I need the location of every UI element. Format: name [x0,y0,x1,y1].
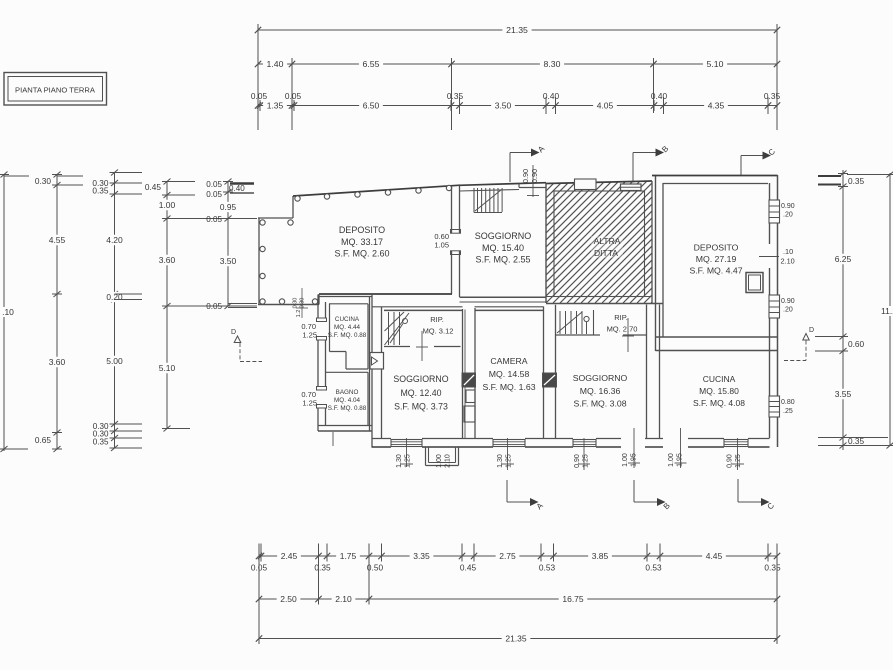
svg-text:DEPOSITO: DEPOSITO [694,243,739,253]
svg-text:0.53: 0.53 [539,563,556,573]
svg-text:2.10: 2.10 [445,454,452,468]
svg-text:.25: .25 [783,408,793,415]
section marker B bottom [634,480,672,511]
svg-text:4.20: 4.20 [106,235,123,245]
svg-text:0.90: 0.90 [521,169,530,183]
stairs RIP 3.12 [385,312,410,345]
svg-text:3.35: 3.35 [413,551,430,561]
fixture boxes camera left wall [464,390,475,422]
wall block bottom [318,426,372,432]
svg-text:0.35: 0.35 [93,438,109,447]
svg-text:CUCINA: CUCINA [703,374,736,384]
wall divider deposito-27 cucina [656,337,779,351]
wall deposito-33 right with door 0.60 [451,185,461,297]
hatched area ALTRA DITTA [406,160,808,303]
room label DEPOSITO 27.19 [689,243,742,276]
svg-text:0.35: 0.35 [314,563,331,573]
title box PIANTA PIANO TERRA [4,73,107,106]
room label CAMERA 14.58 [482,356,535,392]
door right wall 2.10 [759,247,795,266]
wall camera soggiorno-16.36 divider [544,305,556,439]
window right wall upper 0.90 [769,200,795,223]
svg-text:2.45: 2.45 [281,551,298,561]
right chain total 11.10 [881,172,893,449]
stairs soggiorno-15.40 [474,188,502,213]
svg-text:MQ. 4.04: MQ. 4.04 [334,397,360,404]
left chain 5 0.05 0.05 0.95 0.05 3.50 0.05 [206,179,245,312]
svg-text:3.60: 3.60 [49,357,66,367]
room label CUCINA 15.80 [693,374,745,408]
window opening ALTRA DITTA top left [575,179,597,190]
svg-text:21.35: 21.35 [506,25,528,35]
wall slanted top deposito [293,185,460,218]
door labels 0.60 1.05 deposito-33 [434,232,449,250]
svg-text:0.35: 0.35 [848,176,865,186]
columns circles slanted wall [295,185,452,201]
dimension row top total 21.35 [255,25,780,36]
left chain 2 0.30 4.55 3.60 0.65 [35,172,83,453]
svg-text:ALTRA: ALTRA [594,236,621,246]
svg-text:S.F. MQ. 4.47: S.F. MQ. 4.47 [689,266,742,276]
wall camera left [463,308,476,439]
room label ALTRA DITTA [591,236,623,258]
svg-text:5.10: 5.10 [707,59,724,69]
svg-text:SOGGIORNO: SOGGIORNO [393,374,448,384]
door dark box soggiorno-16.36 left [543,373,557,387]
wall deposito-27 top [652,176,778,184]
section marker A bottom [507,480,545,511]
svg-text:D: D [231,329,236,336]
svg-text:1.00: 1.00 [668,453,675,467]
svg-text:1.25: 1.25 [506,454,513,468]
room label RIP 3.12 [423,315,454,336]
svg-text:0.90: 0.90 [574,454,581,468]
svg-text:.20: .20 [783,307,793,314]
room label RIP 2.70 [607,313,638,334]
svg-text:5.10: 5.10 [159,363,176,373]
svg-text:0.05: 0.05 [206,190,222,199]
svg-text:1.25: 1.25 [302,331,317,340]
section marker D left [231,329,262,362]
svg-text:6.50: 6.50 [363,101,380,111]
window right wall middle 0.90 [769,295,795,318]
svg-text:RIP.: RIP. [614,313,628,322]
svg-text:2.10: 2.10 [335,594,352,604]
right chain 0.35 6.25 0.60 3.55 0.35 [815,170,888,450]
svg-text:1.30: 1.30 [497,454,504,468]
svg-text:MQ. 2.70: MQ. 2.70 [607,325,638,334]
svg-text:1.00: 1.00 [436,454,443,468]
wall right outer [770,175,778,447]
wall deposito-33 bottom [319,294,452,305]
threshold door soggiorno-12.40 [391,438,422,468]
svg-text:CUCINA: CUCINA [335,316,360,323]
left chain 4 0.45 1.00 3.60 5.10 [145,179,257,432]
dimension row bottom 2.50 2.10 16.75 [256,594,780,605]
svg-text:4.55: 4.55 [49,235,66,245]
svg-text:RIP.: RIP. [430,315,444,324]
svg-text:1.75: 1.75 [340,551,357,561]
left chain 3 0.30 0.35 4.20 0.20 5.00 0.30 0.30 0.35 [92,170,142,452]
svg-text:1.05: 1.05 [434,241,449,250]
svg-text:1.25: 1.25 [302,399,317,408]
small tick under bagno block [332,432,334,446]
svg-text:4.05: 4.05 [597,101,614,111]
dimension row bottom total 21.35 [256,633,780,644]
svg-text:1.95: 1.95 [677,453,684,467]
window ALTRA DITTA top right [621,184,642,191]
svg-text:2.75: 2.75 [499,551,516,561]
threshold door camera [493,438,525,470]
door soggiorno-12.40 from hall [370,353,384,370]
svg-text:0.40: 0.40 [229,184,245,193]
svg-text:5.00: 5.00 [106,356,123,366]
svg-text:0.60: 0.60 [848,339,865,349]
threshold door cucina 0.90 [724,438,748,470]
svg-text:0.05: 0.05 [285,91,302,101]
svg-text:2.10: 2.10 [781,257,795,266]
svg-text:S.F. MQ. 2.60: S.F. MQ. 2.60 [334,249,389,259]
svg-text:DITTA: DITTA [594,248,618,258]
svg-text:4.45: 4.45 [706,551,723,561]
svg-text:MQ. 12.40: MQ. 12.40 [400,388,441,398]
room label SOGGIORNO 15.40 [475,231,532,265]
svg-text:MQ. 16.36: MQ. 16.36 [580,386,621,396]
svg-text:0.65: 0.65 [35,435,52,445]
svg-text:CAMERA: CAMERA [490,356,527,366]
svg-text:1.00: 1.00 [622,453,629,467]
svg-text:BAGNO: BAGNO [336,389,359,396]
svg-text:0.90: 0.90 [727,454,734,468]
svg-text:0.05: 0.05 [206,215,222,224]
door left wall lower 0.70 [301,387,326,409]
svg-text:S.F. MQ. 0.88: S.F. MQ. 0.88 [328,405,367,412]
svg-text:MQ. 3.12: MQ. 3.12 [423,327,454,336]
walls RIP 3.12 [372,307,463,361]
svg-text:0.35: 0.35 [92,186,109,196]
svg-text:D: D [809,327,814,334]
svg-text:MQ. 33.17: MQ. 33.17 [341,237,383,247]
walls ALTRA DITTA border [546,181,663,304]
wall bottom main [372,439,770,448]
door left wall upper 0.70 [301,318,326,340]
svg-text:0.30: 0.30 [293,298,299,309]
door dark box camera left [462,373,476,387]
svg-text:0.95: 0.95 [220,202,237,212]
svg-text:0.05: 0.05 [251,91,268,101]
svg-text:0.35: 0.35 [764,91,781,101]
svg-text:2.50: 2.50 [280,594,297,604]
svg-text:3.50: 3.50 [495,101,512,111]
svg-text:0.35: 0.35 [764,563,781,573]
svg-text:MQ. 27.19: MQ. 27.19 [696,254,737,264]
threshold door soggiorno-16.36 [573,438,596,470]
svg-text:6.25: 6.25 [835,254,852,264]
svg-text:0.30: 0.30 [35,176,52,186]
svg-text:0.45: 0.45 [460,563,477,573]
svg-text:PIANTA PIANO TERRA: PIANTA PIANO TERRA [15,86,96,95]
dimension row bottom detailed 2.45 1.75 3.35 2.75 3.85 4.45 [251,544,781,573]
svg-text:0.40: 0.40 [543,91,560,101]
svg-text:1.30: 1.30 [396,454,403,468]
room label SOGGIORNO 16.36 [573,373,628,409]
svg-text:SOGGIORNO: SOGGIORNO [475,231,532,241]
svg-text:.10: .10 [783,247,793,256]
svg-text:0.80: 0.80 [781,399,795,406]
svg-text:MQ. 15.80: MQ. 15.80 [699,386,739,396]
room walls CUCINA 4.44 [329,304,368,369]
svg-text:0.90: 0.90 [530,169,539,183]
svg-text:0.05: 0.05 [206,180,222,189]
svg-text:S.F. MQ. 3.08: S.F. MQ. 3.08 [573,399,626,409]
door opening cucina right 1.00 [668,428,687,468]
svg-text:S.F. MQ. 4.08: S.F. MQ. 4.08 [693,398,745,408]
svg-text:0.53: 0.53 [645,563,662,573]
walls soggiorno-12.40 block sides [370,294,382,447]
svg-text:DEPOSITO: DEPOSITO [339,225,385,235]
room label DEPOSITO 33.17 [334,225,389,259]
stairs RIP 2.70 [557,311,589,334]
svg-text:0.90: 0.90 [781,298,795,305]
svg-text:MQ. 4.44: MQ. 4.44 [334,324,360,331]
small dim cluster left wing bottom [293,288,309,318]
svg-text:3.85: 3.85 [592,551,609,561]
columns circles wing [260,220,318,304]
svg-text:1.25: 1.25 [583,454,590,468]
svg-text:1.95: 1.95 [631,453,638,467]
svg-text:0.35: 0.35 [447,91,464,101]
svg-text:1.25: 1.25 [405,454,412,468]
left chain 1 total 11.10 [0,172,29,453]
section marker D right [784,327,814,361]
svg-text:8.30: 8.30 [544,59,561,69]
porch entry steps [426,447,459,468]
svg-text:4.35: 4.35 [708,101,725,111]
shaft box deposito-27 [746,273,763,293]
heavy wall stubs upper left of plan [228,184,257,308]
section marker C top [741,147,777,176]
svg-text:6.55: 6.55 [363,59,380,69]
section marker A top [510,144,547,182]
svg-text:S.F. MQ. 2.55: S.F. MQ. 2.55 [475,255,530,265]
section marker C bottom [738,479,776,511]
svg-text:SOGGIORNO: SOGGIORNO [573,373,628,383]
svg-text:1.25: 1.25 [735,454,742,468]
wall block top [318,296,372,298]
svg-text:MQ. 14.58: MQ. 14.58 [489,369,530,379]
room label CUCINA 4.44 [328,316,367,339]
wall deposito-27 left [656,175,664,351]
svg-text:1.00: 1.00 [159,200,176,210]
wall wing colonnade left [258,218,319,305]
svg-text:21.35: 21.35 [505,634,527,644]
dimension row top 1.40 6.55 8.30 5.10 [255,59,780,70]
wall block left with doors [318,295,326,432]
svg-text:S.F. MQ. 1.63: S.F. MQ. 1.63 [482,382,535,392]
svg-text:0.90: 0.90 [781,203,795,210]
dimension row top detailed 1.35 6.50 3.50 4.05 4.35 [251,91,781,111]
walls RIP 2.70 [556,310,647,352]
svg-text:.20: .20 [783,212,793,219]
svg-text:1.2: 1.2 [296,310,302,318]
wall cucina-15.80 left [647,305,660,439]
svg-text:1.35: 1.35 [267,101,284,111]
extension verticals bottom dims [259,547,777,643]
svg-text:.10: .10 [2,307,14,317]
extension verticals top dims [258,24,777,130]
room label BAGNO 4.04 [328,389,367,412]
svg-text:0.05: 0.05 [206,302,222,311]
room walls BAGNO [326,372,369,425]
svg-text:S.F. MQ. 3.73: S.F. MQ. 3.73 [394,402,448,412]
svg-text:3.60: 3.60 [159,255,176,265]
svg-text:3.55: 3.55 [835,389,852,399]
svg-text:16.75: 16.75 [562,594,584,604]
wall soggiorno-15.40 bottom [460,297,547,302]
svg-text:MQ. 15.40: MQ. 15.40 [482,243,524,253]
svg-text:S.F. MQ. 0.88: S.F. MQ. 0.88 [328,332,367,339]
svg-text:0.45: 0.45 [145,182,162,192]
section marker B top [633,144,670,182]
svg-text:1.40: 1.40 [267,59,284,69]
svg-text:11.10: 11.10 [881,306,893,316]
wall camera top [475,307,544,311]
window right wall cucina 0.80 [769,396,795,417]
svg-text:0.30: 0.30 [300,298,306,309]
svg-text:3.50: 3.50 [220,256,237,266]
door opening cucina left 1.00 [622,428,640,468]
room label SOGGIORNO 12.40 [393,374,448,412]
wall soggiorno-15.40 top door 0.90 [460,165,547,197]
